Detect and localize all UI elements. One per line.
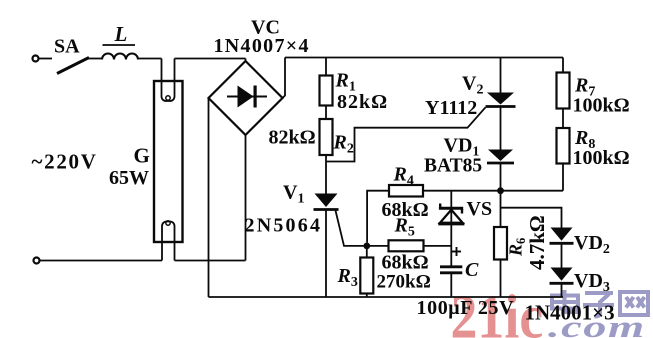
thyristor V2 — [425, 58, 516, 120]
wire positive node row — [423, 190, 563, 192]
wire VD1 to node B — [500, 163, 502, 191]
terminal bottom-left — [34, 258, 40, 264]
wire — [175, 58, 246, 60]
resistor R4 — [367, 164, 423, 243]
watermark 21ic.com — [451, 282, 649, 338]
svg-text:~220V: ~220V — [32, 150, 98, 174]
zener diode VS — [438, 191, 492, 266]
wire — [40, 260, 163, 262]
bridge rectifier VC — [209, 17, 310, 136]
svg-text:1N4007×4: 1N4007×4 — [214, 35, 310, 57]
wire + rail — [285, 57, 563, 59]
svg-text:82kΩ: 82kΩ — [269, 127, 316, 149]
resistor R3 — [337, 246, 374, 297]
inductor L — [102, 22, 138, 60]
switch SA — [54, 36, 89, 74]
junction node A — [363, 243, 370, 250]
svg-text:2N5064: 2N5064 — [245, 215, 323, 237]
wire node B to VD2 — [501, 208, 562, 228]
svg-text:100kΩ: 100kΩ — [573, 147, 630, 169]
svg-text:VS: VS — [467, 198, 493, 220]
svg-text:G: G — [134, 144, 150, 168]
wire VD2 to VD3 — [561, 243, 563, 267]
wire — [138, 58, 162, 60]
svg-text:L: L — [114, 22, 128, 46]
svg-text:100μF 25V: 100μF 25V — [417, 297, 515, 319]
wire — [175, 260, 246, 262]
svg-text:100kΩ: 100kΩ — [573, 95, 630, 117]
svg-text:1N4001×3: 1N4001×3 — [525, 301, 615, 325]
svg-text:C: C — [465, 259, 479, 281]
thyristor V1 — [245, 182, 364, 246]
wire gate branch to V2 — [326, 107, 486, 161]
diode VD2 — [550, 228, 610, 258]
svg-text:BAT85: BAT85 — [424, 156, 482, 177]
svg-text:270kΩ: 270kΩ — [377, 272, 431, 293]
diode VD1 — [424, 135, 514, 177]
wire VD3 to ground rail — [561, 283, 563, 297]
diode VD3 — [550, 268, 610, 296]
svg-text:68kΩ: 68kΩ — [382, 252, 429, 274]
svg-text:SA: SA — [54, 36, 80, 58]
resistor R1 — [320, 58, 356, 106]
junction node B — [497, 187, 504, 194]
resistor R8 — [557, 109, 596, 191]
svg-text:82kΩ: 82kΩ — [337, 91, 388, 113]
svg-text:4.7kΩ: 4.7kΩ — [525, 215, 549, 270]
wire V1 cathode — [325, 211, 327, 298]
wire — [39, 58, 53, 60]
svg-text:Y1112: Y1112 — [425, 97, 477, 119]
resistor R6 — [494, 191, 549, 297]
wire bridge left down — [208, 98, 210, 297]
resistor R2 — [320, 106, 354, 157]
wire — [88, 58, 102, 60]
wire V2 to VD1 — [500, 107, 502, 150]
svg-text:65W: 65W — [109, 167, 149, 189]
wire bridge bottom — [245, 135, 247, 261]
terminal top-left — [33, 56, 39, 62]
wire bridge right to + rail — [283, 58, 286, 99]
resistor R5 — [367, 215, 452, 252]
wire R2 to V1 — [325, 155, 327, 194]
ground rail — [209, 296, 564, 298]
resistor R7 — [557, 58, 596, 109]
lamp G — [109, 59, 183, 261]
capacitor C — [440, 247, 479, 297]
